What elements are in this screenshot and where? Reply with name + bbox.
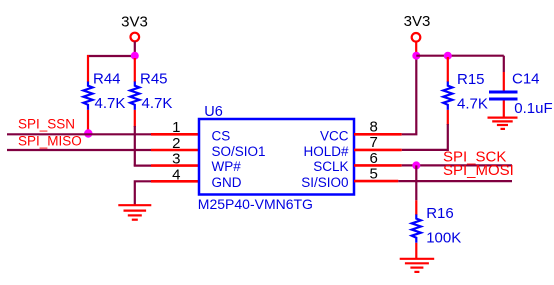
junction at right 3V3 rail <box>412 52 420 60</box>
svg-text:3V3: 3V3 <box>404 13 431 30</box>
resistor R15 <box>443 57 488 125</box>
svg-text:SPI_MOSI: SPI_MOSI <box>443 162 514 179</box>
resistor R44 <box>83 55 125 134</box>
wire R45 bottom down to WP# row (crosses rows 1,2) <box>134 126 136 166</box>
junction SCLK / R16 <box>412 161 420 169</box>
svg-text:VCC: VCC <box>320 128 349 143</box>
svg-text:4: 4 <box>172 166 180 183</box>
wire VCC to 3V3 rail <box>402 56 417 135</box>
svg-text:SCLK: SCLK <box>313 159 348 174</box>
resistor R45 <box>130 58 172 127</box>
wire GND pin to ground (row 4) <box>135 181 151 204</box>
power 3V3 (left) <box>121 14 148 53</box>
wire SPI_SSN (row 1) <box>7 133 151 135</box>
svg-text:2: 2 <box>172 135 180 152</box>
wire SCLK junction down to R16 <box>415 165 417 200</box>
wire SPI_SCK (row 6) <box>402 164 512 166</box>
ground symbol (below C14) <box>488 118 518 129</box>
svg-text:GND: GND <box>212 175 242 190</box>
wire R15 bottom to HOLD# <box>402 124 448 150</box>
ground symbol (below GND pin) <box>118 205 151 220</box>
svg-text:U6: U6 <box>204 104 223 120</box>
pin stub VCC pin 8 <box>354 133 402 136</box>
wire SPI_MISO (row 2) <box>7 149 151 151</box>
pin stub SI/SIO0 pin 5 <box>354 180 398 183</box>
resistor R16 <box>412 200 462 258</box>
wire R45 column to WP# (row 3) <box>134 165 151 167</box>
svg-text:1: 1 <box>172 119 180 136</box>
junction at left 3V3 rail <box>131 52 139 60</box>
wire 3V3 rail to C14 <box>416 55 504 57</box>
svg-text:4.7K: 4.7K <box>457 96 488 113</box>
pin stub HOLD# pin 7 <box>354 149 402 152</box>
svg-text:SO/SIO1: SO/SIO1 <box>212 144 266 159</box>
pin stub WP# pin 3 <box>151 164 199 167</box>
pin stub CS pin 1 <box>151 133 199 136</box>
svg-text:SPI_MISO: SPI_MISO <box>18 134 82 149</box>
svg-text:R16: R16 <box>426 205 454 222</box>
svg-text:C14: C14 <box>512 70 540 87</box>
svg-text:M25P40-VMN6TG: M25P40-VMN6TG <box>198 196 313 212</box>
svg-text:SPI_SSN: SPI_SSN <box>18 116 75 131</box>
svg-text:4.7K: 4.7K <box>95 95 126 112</box>
svg-text:8: 8 <box>370 119 378 136</box>
capacitor C14 <box>489 56 553 117</box>
power 3V3 (right) <box>404 13 431 52</box>
svg-text:R44: R44 <box>93 70 121 87</box>
svg-text:R15: R15 <box>457 71 485 88</box>
svg-text:CS: CS <box>212 128 231 143</box>
pin stub GND pin 4 <box>151 180 199 183</box>
svg-text:SI/SIO0: SI/SIO0 <box>301 175 348 190</box>
ground symbol (below R16) <box>400 259 435 272</box>
svg-text:HOLD#: HOLD# <box>303 144 349 159</box>
pin stub SCLK pin 6 <box>354 164 402 167</box>
svg-text:3: 3 <box>172 151 180 168</box>
junction R44 / SPI_SSN wire <box>84 129 92 137</box>
IC U6 body <box>199 119 354 195</box>
wire 3V3 rail to R44 top <box>87 55 135 57</box>
svg-text:WP#: WP# <box>212 159 242 174</box>
svg-text:100K: 100K <box>426 230 461 247</box>
svg-text:3V3: 3V3 <box>121 14 148 31</box>
svg-text:0.1uF: 0.1uF <box>514 100 552 117</box>
pin stub SO/SIO1 pin 2 <box>151 149 199 152</box>
svg-text:R45: R45 <box>140 70 168 87</box>
junction at R15 top <box>444 52 452 60</box>
wire SPI_MOSI (row 5) <box>398 180 512 182</box>
svg-text:4.7K: 4.7K <box>142 95 173 112</box>
